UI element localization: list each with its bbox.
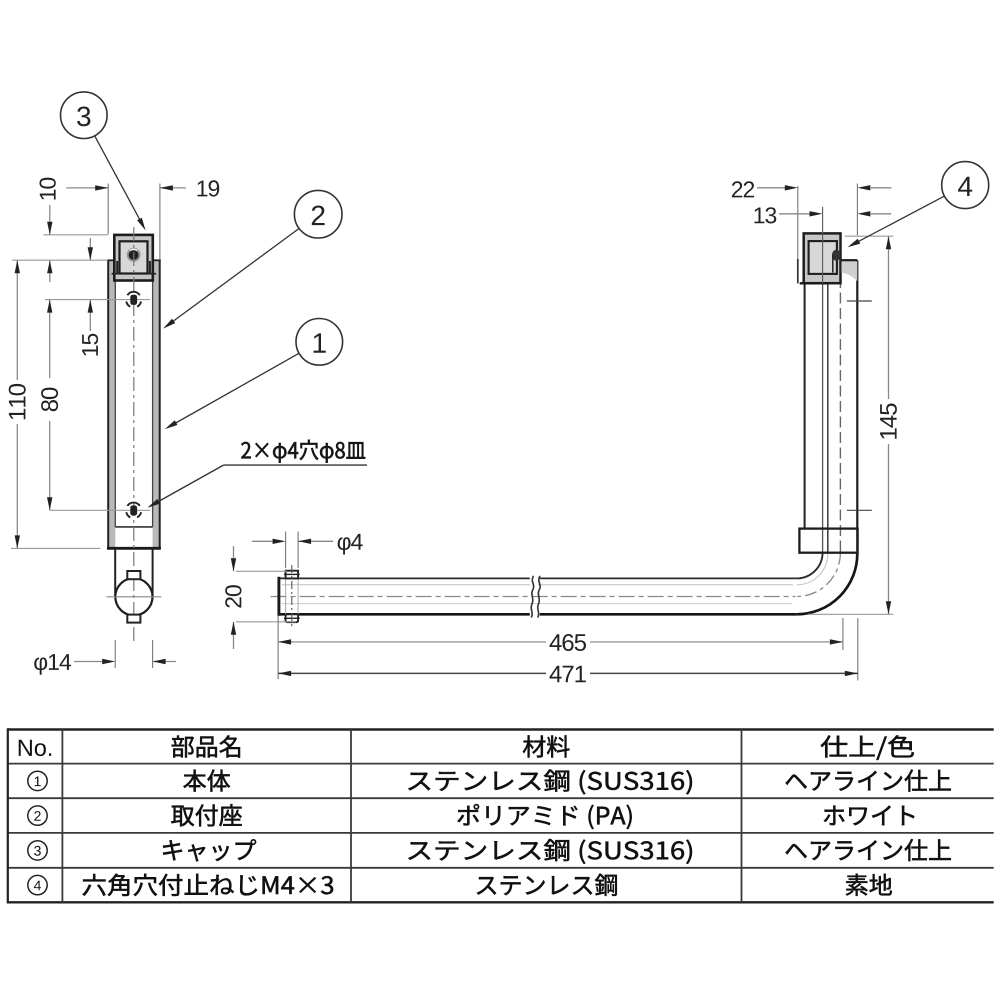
set screw item4 xyxy=(832,250,841,273)
screw centerline through cap xyxy=(822,207,824,283)
dim phi4 (pin dia) xyxy=(252,532,363,569)
balloon 1 with leader xyxy=(165,319,343,430)
vertical leg lines xyxy=(805,260,858,554)
wall line behind mount xyxy=(797,186,799,283)
bar left end cap xyxy=(277,577,280,616)
screw hole tick lower (right leg) xyxy=(847,509,872,511)
break symbol in bar xyxy=(531,576,540,618)
bar lower highlight line xyxy=(282,603,792,605)
table row 1: body xyxy=(28,770,951,795)
dim 80 (screw hole spacing) xyxy=(41,300,58,511)
dim phi14 (bar dia) xyxy=(34,640,176,675)
bar cross-section circle phi14 xyxy=(107,578,162,615)
table header row xyxy=(19,735,914,760)
dim 465 xyxy=(278,616,858,681)
dim 20 (pin length) xyxy=(225,546,296,649)
table row 4: set screw xyxy=(28,874,892,896)
dim 15 (top to first hole) xyxy=(82,238,98,356)
countersunk screw hole upper (left view) xyxy=(45,292,150,307)
pin through bar at left end xyxy=(284,565,300,628)
dim 19 (plate width) xyxy=(66,180,219,259)
screw hole tick upper (right leg) xyxy=(847,300,872,302)
horizontal bar top edge xyxy=(279,577,797,579)
bar stem below plate (left view) xyxy=(115,549,152,597)
table row 2: mounting seat xyxy=(28,804,915,829)
bar bottom edge xyxy=(279,613,797,616)
mount step right of cap xyxy=(842,260,858,281)
balloon 3 with leader xyxy=(61,92,146,231)
dim 110 (plate height) xyxy=(9,260,108,548)
bend arcs at bottom right xyxy=(797,553,858,615)
dim 22 (mount depth) xyxy=(732,181,892,197)
leg bottom block xyxy=(799,529,857,553)
bar axis centerline xyxy=(271,596,796,598)
vertical dash-dot centerline of left view xyxy=(133,227,135,642)
cap on plate top (left view) xyxy=(112,235,157,281)
pin tabs on circle xyxy=(127,571,140,623)
parts table xyxy=(8,728,994,903)
balloon 2 with leader xyxy=(163,190,342,328)
dim 10 (cap height) xyxy=(40,178,108,282)
left view: mounting plate side profile xyxy=(107,260,161,548)
label 2x phi4 hole countersink xyxy=(148,440,368,508)
balloon 4 with leader xyxy=(848,162,989,248)
bar top highlight line xyxy=(282,584,793,586)
top-right mount cap xyxy=(800,233,841,283)
dim 13 xyxy=(755,184,892,236)
dim 145 (leg height) xyxy=(808,236,897,614)
dim 471 xyxy=(278,666,858,683)
countersunk screw hole lower (left view) xyxy=(50,503,150,518)
table row 3: cap xyxy=(28,839,951,864)
